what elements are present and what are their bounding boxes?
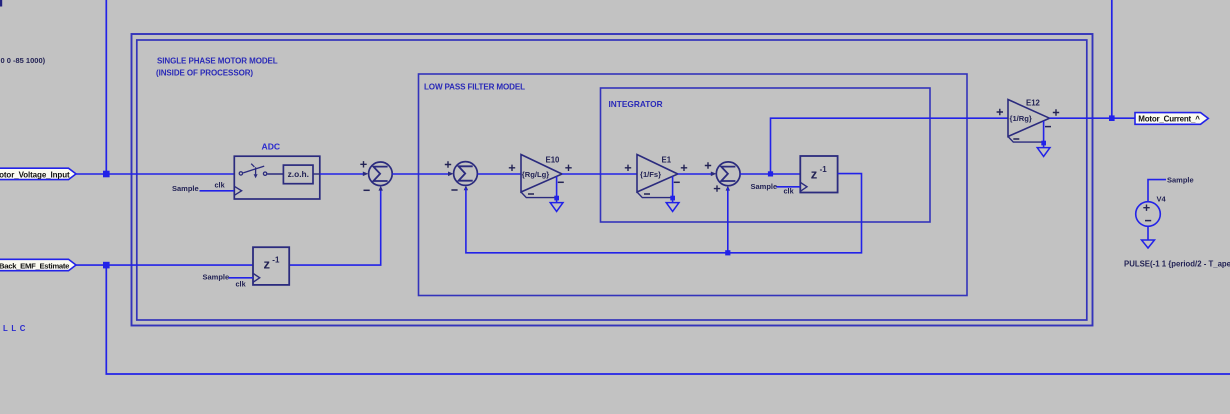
node junction at Back_EMF_Estimate	[103, 262, 110, 269]
delay1 clk chevron	[253, 273, 260, 282]
box SINGLE PHASE MOTOR MODEL outer	[132, 34, 1093, 326]
svg-text:{1/Rg}: {1/Rg}	[1010, 114, 1032, 123]
plus sign V4	[1143, 205, 1149, 211]
node E12 output junction	[1109, 115, 1115, 121]
node junction at Motor_Voltage_Input	[103, 171, 110, 178]
net label Motor_Current	[1135, 113, 1208, 125]
partial symbol fragment top-left corner	[0, 0, 2, 7]
svg-text:z: z	[264, 257, 271, 272]
wire Sample to delay2 clk	[777, 186, 801, 188]
ground E1	[666, 203, 679, 212]
svg-text:Sample: Sample	[203, 273, 230, 282]
wire V4 bottom stub	[1147, 226, 1149, 240]
node summer3 output	[768, 171, 773, 176]
ground E10	[550, 203, 563, 212]
delay block z^-1 (feedback of summer1)	[253, 247, 289, 285]
svg-text:E12: E12	[1026, 98, 1041, 107]
switch right contact	[263, 172, 266, 175]
summer U1 circle	[369, 162, 393, 186]
E12 ref bracket wire	[1008, 137, 1043, 143]
plus sign summer3 bottom	[714, 185, 720, 191]
svg-text:V4: V4	[1157, 194, 1167, 203]
delay block z^-1 (integrator)	[800, 156, 837, 193]
svg-text:(INSIDE OF PROCESSOR): (INSIDE OF PROCESSOR)	[156, 69, 253, 78]
wire E1 to summer3	[678, 173, 713, 175]
voltage source V4	[1136, 202, 1161, 227]
arrowhead into summer 1 left	[363, 172, 369, 177]
wire summer1 to summer2	[392, 173, 450, 175]
E1 minus terminal drop	[672, 177, 674, 203]
svg-text:LOW PASS FILTER MODEL: LOW PASS FILTER MODEL	[424, 83, 525, 92]
net label Back_EMF_Estimate	[0, 259, 76, 270]
svg-text:-1: -1	[820, 165, 828, 174]
svg-text:{1/Fs}: {1/Fs}	[640, 170, 661, 179]
svg-text:E1: E1	[662, 156, 672, 165]
plus sign E12 input	[997, 109, 1003, 115]
node E1 ground	[670, 196, 675, 201]
box LOW PASS FILTER MODEL	[419, 74, 968, 296]
plus sign summer1	[360, 161, 366, 167]
minus sign summer1	[364, 189, 370, 191]
node E12 ground	[1041, 141, 1046, 146]
wire E10 to E1	[562, 173, 637, 175]
minus sign E10 output	[558, 181, 564, 183]
wire top-left vertical	[105, 0, 107, 171]
svg-text:L L C: L L C	[3, 324, 26, 333]
plus sign E10 output	[565, 165, 571, 171]
E1 ref bracket wire	[637, 192, 672, 198]
wire E12 output to net label	[1050, 117, 1136, 119]
wire V4 top to Sample	[1148, 180, 1166, 202]
svg-text:clk: clk	[236, 280, 247, 289]
plus sign E10 input	[509, 165, 515, 171]
op-amp E12 triangle	[1008, 100, 1050, 137]
minus sign V4	[1145, 220, 1151, 222]
op-amp E10 triangle	[521, 155, 562, 193]
plus sign E12 output	[1053, 109, 1059, 115]
svg-text:SINGLE PHASE MOTOR MODEL: SINGLE PHASE MOTOR MODEL	[157, 57, 278, 66]
minus sign E12 output	[1045, 126, 1051, 128]
box INTEGRATOR	[601, 88, 931, 222]
wire Sample to delay1 clk	[229, 277, 254, 279]
svg-text:E10: E10	[546, 156, 561, 165]
svg-text:Motor_Current_^: Motor_Current_^	[1138, 115, 1200, 124]
svg-text:PULSE(-1 1 {period/2 - T_aper: PULSE(-1 1 {period/2 - T_aper	[1124, 259, 1230, 268]
plus sign summer2	[445, 161, 451, 167]
summer U2 circle	[454, 162, 478, 186]
wire ADC to summer 1	[320, 173, 365, 175]
minus sign E10 ref	[528, 193, 534, 195]
wire z.o.h. to ADC edge	[313, 173, 320, 175]
wire Back_EMF_Estimate to delay block	[76, 264, 253, 266]
op-amp E1 triangle	[637, 155, 678, 193]
switch left contact	[239, 172, 242, 175]
E12 minus terminal drop	[1043, 121, 1045, 147]
arrowhead into summer3 bottom	[726, 186, 730, 191]
minus sign E12 ref	[1013, 138, 1019, 140]
svg-text:Sample: Sample	[751, 182, 778, 191]
wire Sample to ADC clk	[200, 190, 235, 192]
z.o.h. block	[283, 165, 313, 184]
plus sign summer3 left	[705, 162, 711, 168]
svg-text:0 0 -85 1000): 0 0 -85 1000)	[1, 56, 46, 65]
node E10 ground	[554, 196, 559, 201]
svg-text:Sample: Sample	[172, 184, 199, 193]
E10 ref bracket wire	[521, 192, 556, 198]
arrowhead into summer3 left	[711, 172, 717, 177]
svg-text:Motor_Voltage_Input: Motor_Voltage_Input	[0, 170, 70, 179]
svg-text:z.o.h.: z.o.h.	[288, 169, 309, 179]
summer U3 circle	[716, 162, 740, 186]
svg-text:INTEGRATOR: INTEGRATOR	[609, 99, 663, 109]
wire Back_EMF node down to bottom rail	[106, 265, 1230, 374]
svg-text:z: z	[811, 166, 818, 181]
wire switch to z.o.h.	[267, 173, 283, 175]
minus sign E1 output	[674, 181, 680, 183]
node feedback rail	[725, 250, 730, 255]
switch lever	[243, 166, 264, 173]
down arrow terminal V4	[1142, 240, 1155, 248]
wire delay1 output up to summer1	[289, 188, 381, 266]
ground E12	[1037, 148, 1050, 157]
svg-text:-1: -1	[272, 256, 280, 265]
wire summer3 to delay2	[740, 173, 800, 175]
svg-text:{Rg/Lg}: {Rg/Lg}	[522, 170, 549, 179]
plus sign E1 output	[681, 165, 687, 171]
svg-text:clk: clk	[215, 181, 226, 190]
svg-text:ADC: ADC	[262, 141, 281, 151]
ADC block A1	[234, 156, 319, 199]
svg-text:Sample: Sample	[1167, 176, 1194, 185]
wire vertical at output node to top	[1111, 0, 1113, 118]
E10 minus terminal drop	[556, 177, 558, 203]
wire summer2 to E10	[478, 173, 521, 175]
arrowhead into summer2 bottom	[464, 186, 468, 191]
svg-text:Back_EMF_Estimate: Back_EMF_Estimate	[0, 261, 70, 270]
plus sign E1 input	[625, 165, 631, 171]
delay2 clk chevron	[800, 182, 807, 191]
arrowhead into summer 2 left	[448, 172, 454, 177]
box SINGLE PHASE MOTOR MODEL inner	[137, 40, 1087, 320]
wire delay2 output to feedback rail	[466, 174, 862, 253]
wire node up and across to E12	[771, 118, 1009, 174]
wire feedback rail up to summer3	[727, 188, 729, 253]
svg-text:clk: clk	[784, 186, 795, 195]
minus sign E1 ref	[644, 193, 650, 195]
minus sign summer2	[451, 189, 457, 191]
net label Motor_Voltage_Input	[0, 168, 76, 179]
wire Motor_Voltage_Input to ADC	[76, 173, 234, 175]
switch actuator arrow	[251, 164, 255, 175]
arrowhead into summer1 bottom	[379, 186, 383, 191]
ADC clk chevron	[234, 186, 241, 195]
